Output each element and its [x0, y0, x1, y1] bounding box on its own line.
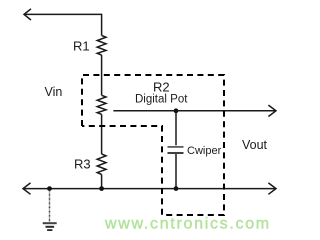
svg-text:Digital Pot: Digital Pot: [135, 94, 188, 106]
svg-text:R2: R2: [153, 80, 170, 95]
svg-text:Vin: Vin: [45, 85, 63, 99]
svg-text:Cwiper: Cwiper: [187, 145, 222, 157]
svg-text:R3: R3: [74, 157, 91, 172]
svg-text:www.cntronics.com: www.cntronics.com: [104, 216, 271, 233]
svg-text:R1: R1: [73, 39, 90, 54]
svg-text:Vout: Vout: [242, 138, 268, 152]
